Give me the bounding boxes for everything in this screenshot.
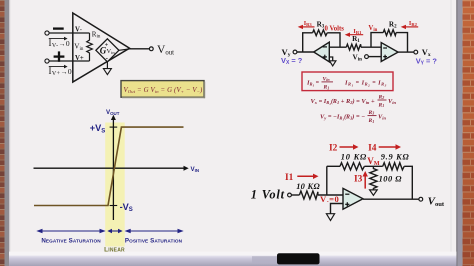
label R3 xyxy=(317,20,325,29)
wire U3 non-inverting input xyxy=(368,56,381,58)
wire R1 to U3 inverting xyxy=(361,46,381,48)
wall bricks left edge xyxy=(0,0,5,266)
svg-text:I2: I2 xyxy=(329,144,338,154)
dependent source G*Vin xyxy=(96,39,119,62)
wire feedback riser xyxy=(326,166,328,195)
wire V+ row inside xyxy=(73,60,90,62)
svg-text:10 KΩ: 10 KΩ xyxy=(296,182,320,191)
label I3 current xyxy=(354,171,368,189)
wire output xyxy=(130,48,150,50)
linear region highlight band xyxy=(105,123,125,247)
label Vin (black) xyxy=(353,53,363,62)
minus polarity sign xyxy=(53,27,64,29)
label Vin across input xyxy=(74,43,84,52)
svg-text:R1: R1 xyxy=(378,102,385,108)
wire to op-amp xyxy=(318,194,343,196)
wire top feedback left xyxy=(327,165,340,167)
svg-text:Vin: Vin xyxy=(388,98,396,105)
label linear xyxy=(104,247,125,254)
output terminal Vx xyxy=(414,50,418,54)
label source 1 Volt xyxy=(251,187,285,201)
svg-text:I4: I4 xyxy=(368,144,377,154)
formula Vy xyxy=(320,110,386,124)
whiteboard frame left xyxy=(5,0,10,266)
svg-text:VOut = G Vin = G (V+ − V−): VOut = G Vin = G (V+ − V−) xyxy=(124,87,204,94)
whiteboard frame right xyxy=(451,0,452,266)
svg-text:LINEAR: LINEAR xyxy=(104,247,125,254)
marker tray xyxy=(9,252,457,256)
ground below source xyxy=(103,62,111,75)
svg-text:VIN: VIN xyxy=(191,166,200,173)
label I4 current xyxy=(368,144,401,154)
formula box IR1 xyxy=(302,72,393,91)
pin label V+ xyxy=(75,55,84,62)
input terminal V- node xyxy=(45,31,49,35)
svg-text:I1: I1 xyxy=(285,173,294,183)
label negative saturation xyxy=(41,238,101,245)
label +Vs xyxy=(90,123,106,134)
formula Vx xyxy=(311,94,397,108)
range arrow linear xyxy=(107,229,122,233)
input terminal node xyxy=(288,193,292,197)
current direction arrow Iv+ xyxy=(49,65,68,69)
label 0 Volts xyxy=(325,25,345,32)
resistor R2 xyxy=(383,30,396,36)
wire Vm node xyxy=(364,165,382,167)
svg-text:R3: R3 xyxy=(368,110,375,116)
range arrow positive saturation xyxy=(125,229,184,233)
current direction arrow Iv- xyxy=(49,37,68,41)
svg-text:R2: R2 xyxy=(378,94,385,100)
plus polarity sign xyxy=(54,51,65,61)
wire V+ input xyxy=(49,60,73,62)
pin label V- xyxy=(75,27,82,34)
value label 10 KΩ feedback xyxy=(341,153,367,162)
formulas right column xyxy=(302,72,396,124)
wire V- row inside xyxy=(73,32,90,34)
label current Iv+ xyxy=(49,66,73,77)
label Vy = ? question xyxy=(416,57,438,67)
svg-text:R1: R1 xyxy=(368,118,375,124)
svg-text:IV-→0: IV-→0 xyxy=(49,38,71,49)
svg-text:100 Ω: 100 Ω xyxy=(379,175,403,184)
op-amp U3 xyxy=(381,43,398,62)
label -Vs xyxy=(120,202,133,213)
svg-text:Vx = IR1(R1 + R2) = Vin +: Vx = IR1(R1 + R2) = Vin + xyxy=(311,98,375,106)
value label 9.9 KΩ xyxy=(381,153,410,162)
label R2 xyxy=(389,20,397,29)
marker shadow on tray xyxy=(252,256,279,263)
output terminal Vy xyxy=(293,50,297,54)
wire feedback riser U3 xyxy=(371,33,383,48)
wire R2 to U3 output xyxy=(396,33,407,53)
tick +Vs xyxy=(110,126,118,128)
input terminal Vin xyxy=(365,55,369,59)
svg-text:R1: R1 xyxy=(323,85,330,91)
axis Vout vertical xyxy=(111,115,116,220)
resistor 10K input xyxy=(299,191,318,199)
value label 100 Ω xyxy=(379,175,403,184)
svg-text:IR1 = IR2 = IR3: IR1 = IR2 = IR3 xyxy=(344,79,387,87)
ground U2 non-inverting xyxy=(329,57,336,66)
svg-text:1 Volt: 1 Volt xyxy=(251,187,285,201)
label I2 current xyxy=(329,144,359,154)
svg-text:IR2: IR2 xyxy=(409,20,418,27)
label Vin node (red) xyxy=(368,25,377,33)
wall bricks right edge xyxy=(463,0,474,266)
svg-text:I3: I3 xyxy=(354,175,363,185)
label Vx = ? question xyxy=(281,56,303,66)
resistor 100 ohm vertical xyxy=(370,166,377,190)
transfer curve xyxy=(34,127,184,205)
wire V- input xyxy=(49,32,73,34)
label I1 current xyxy=(285,173,319,183)
label R1 xyxy=(352,35,360,44)
tick -Vs xyxy=(110,205,118,207)
ground under 100 ohm xyxy=(370,190,378,195)
svg-text:VX = ?: VX = ? xyxy=(281,56,303,66)
resistor 9.9K feedback xyxy=(383,163,405,170)
resistor Rin xyxy=(87,33,93,61)
svg-text:0 Volts: 0 Volts xyxy=(325,25,345,32)
resistor R1 xyxy=(346,44,361,50)
label IR1 current xyxy=(345,28,364,37)
formula box Vout = G Vin xyxy=(121,81,205,99)
output terminal Vout xyxy=(419,197,423,201)
svg-text:IR3: IR3 xyxy=(304,20,313,27)
label Vout xyxy=(157,44,174,57)
label node Vm xyxy=(367,156,380,167)
label current Iv- xyxy=(49,38,71,49)
op-amp U4 xyxy=(343,188,363,209)
label IR3 current xyxy=(298,20,315,29)
axis Vin horizontal xyxy=(34,166,189,171)
label IR2 current xyxy=(401,20,419,29)
resistor 10K feedback xyxy=(340,163,364,170)
wire inverting input U2 xyxy=(329,46,346,48)
value label 10 KΩ xyxy=(296,182,320,191)
ground U4 non-inverting xyxy=(326,204,343,221)
axis label Vout xyxy=(106,109,120,116)
label Vy xyxy=(282,47,291,58)
label Vout xyxy=(428,196,445,208)
svg-text:10 KΩ: 10 KΩ xyxy=(341,153,367,162)
output terminal node xyxy=(149,47,153,51)
label positive saturation xyxy=(125,238,183,245)
label Vx xyxy=(422,48,431,58)
wire input xyxy=(291,194,299,196)
svg-text:POSITIVE SATURATION: POSITIVE SATURATION xyxy=(125,238,183,245)
wire source to apex xyxy=(119,49,130,50)
op-amp U1 body triangle xyxy=(73,13,130,82)
wire output xyxy=(363,198,419,200)
wire output left op-amp xyxy=(297,51,314,53)
label Rin xyxy=(92,31,101,40)
svg-text:VOUT: VOUT xyxy=(106,109,120,116)
svg-text:9.9 KΩ: 9.9 KΩ xyxy=(381,153,410,162)
wire feedback riser U2 xyxy=(303,33,313,52)
resistor R3 xyxy=(313,30,328,36)
svg-text:Vin: Vin xyxy=(378,114,386,121)
wire U3 output xyxy=(398,51,414,53)
svg-text:VY = ?: VY = ? xyxy=(416,57,438,67)
op-amp U2 (points left) xyxy=(314,42,330,62)
wire R3 to inverting input xyxy=(327,33,340,47)
whiteboard marker (black) xyxy=(277,253,320,264)
input terminal V+ node xyxy=(45,59,49,63)
range arrow negative saturation xyxy=(36,229,105,233)
wire feedback to output xyxy=(404,166,412,199)
label virtual ground V-=0 xyxy=(320,194,339,205)
svg-text:NEGATIVE SATURATION: NEGATIVE SATURATION xyxy=(41,238,101,245)
axis label Vin xyxy=(191,166,200,173)
